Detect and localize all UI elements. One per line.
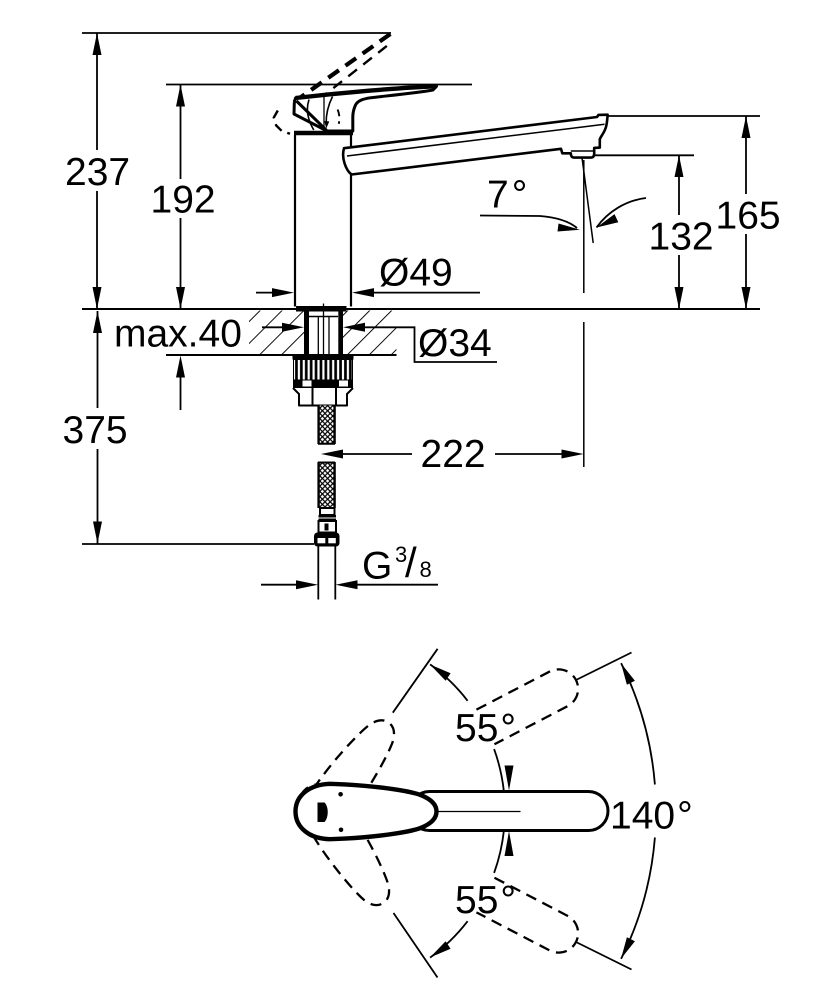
svg-text:140°: 140° (610, 795, 693, 838)
svg-text:/: / (405, 539, 417, 586)
7 degree leader line (480, 216, 577, 229)
handle motion arc left (307, 100, 313, 131)
lower fitting (stepped) (293, 388, 353, 406)
dashed handle rotated down 55deg (289, 775, 402, 915)
dimension 132 (outlet reference line and vertical) (594, 154, 694, 156)
flexible hose upper section (320, 406, 334, 444)
faucet center axis tick at base (323, 304, 325, 311)
dashed raised handle (lower outline) (304, 42, 393, 112)
handle paddle (top view, solid) (296, 784, 437, 839)
hose end reference line (y=544) (82, 543, 314, 545)
dimension 375 vertical line (97, 311, 99, 408)
outlet axis vertical line (583, 160, 585, 293)
handle dashed arc (338, 110, 340, 124)
flexible hose lower section (320, 462, 334, 508)
svg-text:55°: 55° (455, 879, 516, 922)
mounting nut top bar (293, 355, 354, 360)
dimension max.40 arrows (176, 356, 185, 378)
dashed handle rotated up 55deg (290, 710, 407, 848)
svg-text:192: 192 (151, 179, 216, 222)
water stream tilted line (7 deg) (582, 158, 593, 244)
faucet body top bar (294, 131, 353, 135)
dashed spout rotated down (476, 878, 584, 960)
aerator seam (571, 150, 594, 152)
hose end nut (314, 533, 340, 547)
connection pipe G3/8 (317, 547, 319, 600)
handle (solid, filled) (294, 86, 437, 131)
dimension 165 (spout top reference line and vertical) (608, 115, 761, 117)
dimension line handle top (192 reference, y=84.5) (166, 84, 472, 86)
dimension diameter 49 (256, 292, 276, 294)
55deg arc lower (494, 831, 504, 873)
140deg arc (621, 663, 655, 784)
capsule width arrows (505, 766, 514, 791)
counter hatching right of shank (343, 311, 397, 355)
dimension 192 vertical line (180, 85, 182, 180)
handle screw dots (338, 792, 343, 797)
svg-text:375: 375 (63, 409, 128, 452)
shank inner hose lines (317, 317, 319, 355)
spout centerline (437, 811, 521, 813)
mounting nut knurled ribs (294, 360, 353, 381)
dimension line top (237 reference, y=33) (82, 32, 391, 34)
hose end fitting dark band (319, 515, 337, 521)
mounting nut bottom dark band (293, 380, 353, 389)
faucet base plate (296, 306, 347, 312)
extension line upper-right (576, 653, 632, 681)
extension line lower-left 55deg (394, 913, 438, 978)
55deg arc upper (430, 664, 468, 700)
svg-text:165: 165 (716, 195, 781, 238)
counter top line (82, 308, 760, 310)
handle motion arc right (326, 97, 332, 124)
faucet body column (294, 135, 296, 307)
handle motion arrowhead (324, 121, 329, 129)
dimension 222 (321, 450, 343, 459)
svg-text:222: 222 (421, 433, 486, 476)
counter hatching left of shank (249, 311, 304, 355)
svg-text:Ø49: Ø49 (379, 252, 453, 295)
counter bottom line (166, 354, 397, 356)
handle pivot diagonal (297, 101, 327, 130)
svg-text:max.40: max.40 (114, 313, 242, 356)
svg-text:237: 237 (65, 151, 130, 194)
extension line upper-left 55deg (393, 649, 438, 713)
spout capsule (top view) (410, 792, 608, 831)
svg-text:132: 132 (649, 216, 714, 259)
7 degree arc (597, 198, 647, 228)
faucet center axis (upper) (323, 97, 325, 132)
handle knob mark (318, 803, 328, 823)
spout inner highlight line (347, 124, 605, 156)
handle blade top edge (thick) (296, 86, 437, 98)
svg-text:7°: 7° (487, 174, 527, 217)
threaded shank through counter (304, 310, 306, 356)
dimension G3/8 width arrows (261, 584, 300, 586)
dashed raised handle butt end (274, 111, 290, 134)
svg-text:Ø34: Ø34 (418, 322, 492, 365)
svg-text:G: G (362, 545, 392, 588)
hose end fitting mid section (319, 521, 337, 533)
spout (filled outline) (343, 115, 608, 175)
svg-text:55°: 55° (455, 707, 516, 750)
dimension diameter 34 leader (262, 326, 284, 328)
extension line lower-right (576, 942, 632, 970)
svg-text:8: 8 (420, 557, 432, 582)
hose end fitting white collar (320, 508, 335, 515)
dashed spout rotated up (476, 663, 584, 745)
dashed raised handle (upper outline) (294, 34, 391, 103)
dimension 237 vertical line (96, 33, 98, 150)
